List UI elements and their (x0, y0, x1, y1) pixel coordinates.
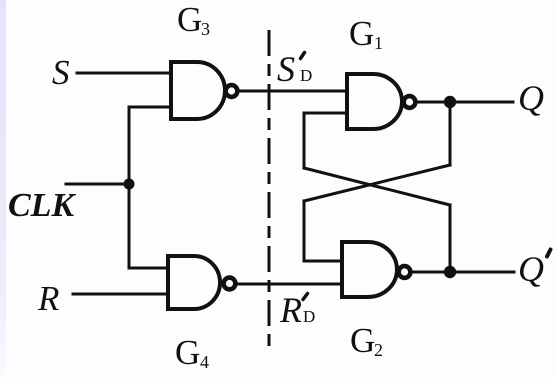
wire G1 lower input (304, 112, 347, 115)
svg-text:G: G (349, 14, 374, 53)
wire G4 upper input (129, 267, 168, 270)
wire right vertical from Q node down (449, 102, 452, 165)
wire G2 output to Q' (411, 271, 514, 274)
wire CLK input (66, 183, 129, 186)
wire G4 output to G2 lower input (R'D net) (236, 283, 342, 286)
NAND gate G3 body (171, 62, 225, 119)
svg-text:G: G (175, 333, 200, 372)
NAND gate G1 output bubble (404, 96, 416, 108)
wire G1 output to Q (416, 101, 513, 104)
svg-text:3: 3 (201, 19, 210, 39)
svg-text:2: 2 (374, 340, 383, 360)
svg-text:R: R (279, 290, 302, 330)
svg-text:D: D (300, 66, 312, 85)
svg-text:Q: Q (518, 249, 544, 289)
NAND gate G3 output bubble (226, 85, 238, 97)
junction dot Q node (444, 96, 456, 108)
svg-text:4: 4 (200, 352, 209, 372)
svg-text:S: S (277, 49, 295, 89)
NAND gate G4 output bubble (224, 278, 236, 290)
svg-text:D: D (303, 307, 315, 326)
wire G2 upper input (304, 260, 342, 263)
svg-text:Q: Q (518, 78, 544, 118)
wire diagonal from left riser to Q'-side vertical (304, 168, 450, 205)
dashed separation line (268, 30, 271, 347)
wire left riser upper (feedback to G1) (303, 113, 306, 168)
junction dot CLK node (124, 179, 135, 190)
wire left riser lower (feedback to G2) (303, 201, 306, 261)
svg-text:S: S (52, 53, 70, 92)
NAND gate G2 output bubble (399, 266, 411, 278)
wire diagonal from Q-side vertical to left riser (304, 165, 450, 201)
wire right vertical down to Q' node (449, 205, 452, 272)
wire R input (73, 293, 168, 296)
NAND gate G4 body (168, 256, 220, 309)
wire S input (77, 72, 171, 75)
NAND gate G2 body (342, 242, 397, 297)
svg-text:R: R (37, 279, 59, 318)
svg-text:G: G (177, 0, 202, 39)
wire G3 lower input (129, 106, 171, 109)
wire CLK riser (128, 107, 131, 268)
junction dot Q' node (444, 266, 456, 278)
svg-text:CLK: CLK (8, 187, 76, 224)
wire G3 output to G1 upper input (S'D net) (238, 90, 347, 93)
NAND gate G1 body (347, 74, 402, 129)
svg-text:G: G (350, 321, 375, 360)
svg-text:1: 1 (374, 33, 383, 53)
